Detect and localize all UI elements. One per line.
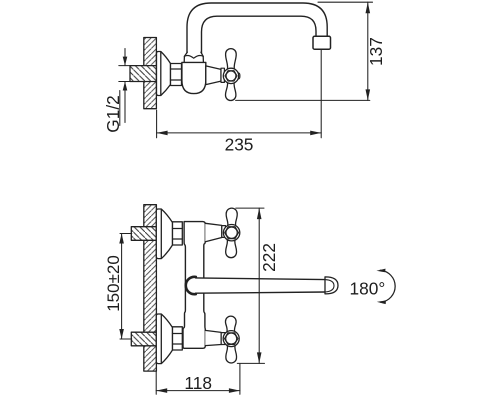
rotation arc 180° — [380, 270, 395, 302]
escutcheon flange (top view) — [157, 52, 171, 96]
svg-text:150±20: 150±20 — [104, 255, 123, 312]
upper connector nut (front view) — [173, 222, 183, 245]
swivel spout socket (front view) — [186, 277, 199, 294]
svg-text:137: 137 — [366, 37, 386, 66]
upper handle collar (front view) — [222, 226, 226, 238]
lower escutcheon flange (front view) — [156, 314, 172, 364]
svg-text:118: 118 — [184, 373, 212, 393]
supply pipe through wall (top view) — [130, 66, 156, 82]
valve bonnet collar (top view) — [184, 52, 203, 62]
upper cross handle (front view) — [223, 208, 239, 258]
rotation arrowheads — [376, 269, 385, 273]
valve body (top view) — [182, 62, 206, 93]
spout end cap (front view) — [325, 277, 338, 294]
upper escutcheon flange (front view) — [156, 209, 172, 259]
lower connector nut (front view) — [173, 327, 183, 350]
svg-text:235: 235 — [225, 134, 254, 154]
svg-text:222: 222 — [259, 243, 279, 272]
wall section (front view) — [144, 205, 157, 371]
spout riser and spout tube (top view) — [187, 3, 327, 58]
underline of G1/2 — [119, 91, 121, 126]
dimension G1/2 — [119, 49, 132, 123]
dimension 118 — [156, 364, 240, 394]
dimension 150±20 — [120, 234, 132, 340]
wall section (top view) — [144, 38, 157, 109]
extension line from aerator — [320, 50, 322, 138]
handle stem ring (top view) — [221, 68, 224, 82]
lower handle adapter cone (front view) — [205, 330, 221, 345]
connector nut (top view) — [171, 64, 182, 86]
spout tube (front view) — [196, 278, 326, 293]
reference line from handle (top view) — [236, 99, 370, 101]
cross handle (top view) — [223, 49, 240, 101]
handle adapter cone (top view) — [206, 66, 221, 85]
dimension 137 — [318, 2, 373, 100]
aerator (top view) — [313, 36, 331, 49]
lower supply pipe (front view) — [131, 332, 156, 346]
lower cross handle (front view) — [223, 316, 239, 363]
faucet body (front view) — [183, 222, 205, 349]
svg-text:180°: 180° — [350, 279, 386, 299]
upper handle adapter cone (front view) — [205, 223, 222, 242]
dimension 235 — [157, 110, 322, 138]
dimension 222 — [236, 208, 265, 363]
lower handle collar (front view) — [221, 333, 225, 345]
upper supply pipe (front view) — [131, 227, 156, 241]
